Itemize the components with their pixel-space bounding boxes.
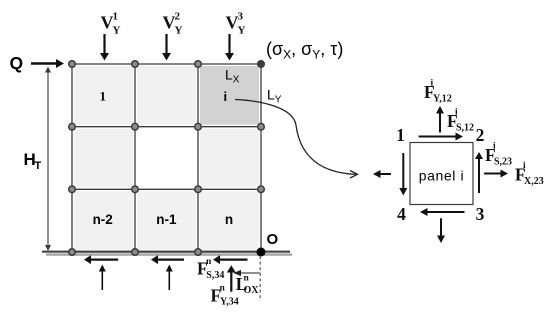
svg-text:1: 1 <box>113 11 119 23</box>
svg-text:Y,12: Y,12 <box>433 94 452 105</box>
svg-text:(σX, σY, τ): (σX, σY, τ) <box>266 39 343 62</box>
svg-text:O: O <box>267 231 279 248</box>
svg-text:S,12: S,12 <box>456 123 474 134</box>
svg-text:1: 1 <box>396 125 405 145</box>
svg-text:3: 3 <box>476 204 485 224</box>
svg-text:n: n <box>225 212 233 227</box>
svg-text:i: i <box>431 79 434 89</box>
svg-text:2: 2 <box>175 11 181 23</box>
svg-text:i: i <box>455 108 458 118</box>
svg-text:X,23: X,23 <box>524 176 544 187</box>
svg-text:n: n <box>206 257 212 267</box>
svg-text:S,34: S,34 <box>206 270 224 281</box>
svg-text:i: i <box>224 89 228 104</box>
svg-text:n-1: n-1 <box>156 212 177 227</box>
svg-text:S,23: S,23 <box>494 157 512 168</box>
svg-text:T: T <box>35 160 42 172</box>
svg-text:Y: Y <box>175 25 183 37</box>
svg-text:n: n <box>244 274 250 284</box>
svg-text:Y: Y <box>238 25 246 37</box>
svg-text:i: i <box>523 161 526 171</box>
svg-text:4: 4 <box>397 204 406 224</box>
svg-text:n-2: n-2 <box>93 212 113 227</box>
svg-text:Q: Q <box>10 53 24 73</box>
svg-text:n: n <box>220 284 226 294</box>
svg-text:3: 3 <box>238 11 244 23</box>
svg-text:2: 2 <box>476 125 485 145</box>
svg-text:panel i: panel i <box>419 168 464 184</box>
svg-text:Y: Y <box>113 25 121 37</box>
svg-text:OX: OX <box>244 285 260 296</box>
svg-text:1: 1 <box>99 89 106 104</box>
svg-text:i: i <box>493 142 496 152</box>
svg-text:Y,34: Y,34 <box>220 297 239 308</box>
